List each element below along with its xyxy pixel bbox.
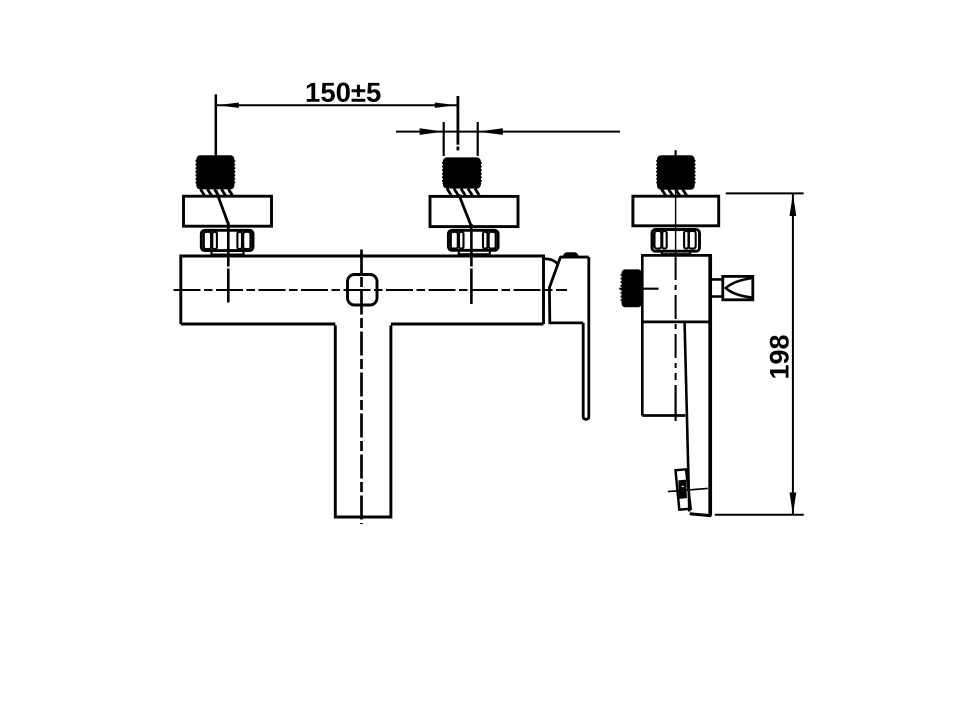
- side cap knurl edges: [657, 160, 695, 185]
- svg-text:150±5: 150±5: [305, 77, 381, 108]
- right inlet flange: [430, 196, 518, 226]
- right inlet diagonal axis: [459, 195, 472, 227]
- front body bar: [181, 256, 544, 324]
- left hex nut facet slots: [204, 232, 211, 249]
- dim 198 top arrow: [790, 194, 797, 216]
- small dim left arrow: [420, 128, 444, 135]
- dim 198 bottom extension: [715, 514, 804, 516]
- side centerline solid: [675, 190, 677, 254]
- dim 150 right arrow: [435, 103, 457, 108]
- side body left edge: [641, 254, 644, 416]
- side centerline end dash: [674, 385, 676, 421]
- right hex nut facet slots: [451, 232, 458, 249]
- left inlet knurl teeth: [201, 189, 233, 196]
- right inlet axis dash-dot: [470, 269, 473, 305]
- side knob (black): [622, 270, 641, 307]
- left inlet diagonal axis: [216, 191, 228, 225]
- handle top edge: [560, 256, 589, 259]
- side body right edge: [708, 254, 712, 516]
- handle lever bar: [583, 257, 589, 419]
- side flange: [633, 196, 719, 226]
- left cap knurl edges: [196, 160, 234, 185]
- side hex nut: [652, 230, 700, 252]
- handle black bump cap: [563, 253, 578, 257]
- dim 150 left arrow: [217, 103, 239, 108]
- handle arc at body corner: [545, 259, 558, 265]
- dimension 150±5 line: [217, 104, 457, 106]
- left inlet flange: [184, 196, 272, 226]
- side outlet box: [723, 276, 753, 299]
- side bottom inner element: [680, 481, 686, 498]
- right hex nut: [448, 230, 498, 250]
- center square escutcheon: [348, 275, 378, 306]
- left inlet axis solid: [227, 222, 230, 267]
- spout: [335, 325, 391, 517]
- left inlet cap (black): [197, 156, 234, 189]
- side cap tick above: [674, 150, 676, 156]
- side bottom cross line: [668, 488, 708, 491]
- right inlet axis solid: [470, 224, 473, 267]
- left inlet axis dash-dot: [227, 269, 230, 303]
- side outlet cone: [726, 278, 753, 298]
- dim 198 vertical line: [792, 194, 794, 515]
- dim 150 right extension line: [456, 96, 459, 150]
- small dim right arrow: [478, 128, 503, 135]
- side lever bottom edge: [690, 514, 712, 516]
- handle neck left edge + bottom: [549, 257, 583, 323]
- front vertical centerline: [360, 250, 363, 525]
- side centerline dash-dot: [675, 256, 677, 380]
- side knob knurl edge: [620, 274, 622, 303]
- side outlet neck: [710, 279, 722, 296]
- right inlet cap (black): [443, 158, 480, 188]
- side body top edge: [642, 254, 710, 257]
- side hex nut facet slots: [655, 231, 662, 249]
- dim 198 bottom arrow: [790, 493, 797, 515]
- side knurl teeth: [662, 189, 687, 195]
- right cap knurl edges: [443, 162, 481, 184]
- small dim line: [396, 131, 620, 133]
- side cap (black): [658, 156, 695, 189]
- side nut collar: [662, 252, 690, 255]
- side bottom tilted element: [676, 469, 691, 509]
- side knob tick: [619, 288, 658, 290]
- dim 150 left extension line: [215, 94, 218, 155]
- left nut collar: [212, 252, 244, 256]
- front horizontal centerline: [174, 289, 568, 291]
- right nut collar: [459, 251, 490, 256]
- left hex nut: [201, 230, 253, 250]
- dim 198 top extension: [726, 192, 804, 194]
- side narrow body bottom: [642, 414, 685, 417]
- side body internal line: [642, 320, 711, 323]
- small dim extension lines: [444, 122, 478, 156]
- side lever left edge: [685, 323, 690, 512]
- svg-text:198: 198: [765, 334, 795, 379]
- right inlet knurl teeth: [447, 189, 479, 196]
